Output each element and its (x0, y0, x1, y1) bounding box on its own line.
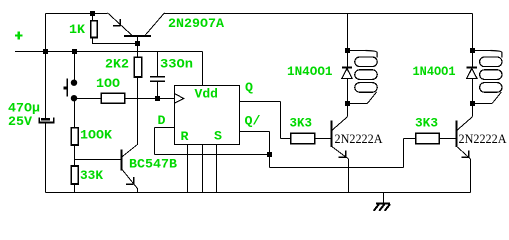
wire base wire to BC547B (75, 159, 122, 161)
wire pushbutton to 100 (77, 98, 102, 100)
transistor 2N2907A collector diagonal (145, 13, 164, 36)
wire 3K3 second to 2N2222A second base (439, 138, 456, 140)
node junction top rail x 1K (90, 11, 95, 16)
wire top supply rail left segment (46, 13, 108, 15)
svg-text:25V: 25V (8, 114, 32, 129)
pin S bottom lead (216, 145, 218, 193)
node junction D feedback x Q-bar (267, 152, 272, 157)
inductor relay coil second (473, 50, 491, 52)
resistor 2K2 body (134, 57, 142, 77)
transistor 2N2907A base bar (124, 35, 151, 37)
wire top supply rail right segment (165, 13, 473, 15)
node junction base node (135, 41, 140, 46)
wire 470u bottom lead (45, 123, 47, 193)
svg-text:1OOK: 1OOK (80, 128, 112, 143)
transistor BC547B collector diagonal (122, 144, 138, 157)
svg-text:Vdd: Vdd (195, 87, 219, 102)
transistor 2N2907A emitter arrow (119, 19, 121, 26)
wire base node to 2K2 crossing bus (137, 44, 139, 58)
svg-text:33K: 33K (80, 168, 103, 183)
svg-text:Q/: Q/ (245, 114, 261, 129)
wire Q-bar feedback run to 3K3 second (269, 155, 271, 168)
svg-text:S: S (214, 129, 222, 144)
diode 1N4001 second cathode bar (467, 67, 477, 69)
svg-text:2K2: 2K2 (105, 57, 129, 72)
resistor 1K body (91, 21, 98, 38)
svg-text:1K: 1K (69, 22, 85, 37)
transistor 2N2222A second emitter diagonal (457, 146, 471, 159)
diode 1N4001 second triangle (467, 69, 477, 79)
svg-text:D: D (158, 113, 166, 128)
svg-text:33On: 33On (160, 57, 193, 72)
node relay1 bottom junction (345, 101, 350, 106)
wire D input feedback (155, 127, 175, 129)
pin Vss bottom lead (202, 145, 204, 193)
diode 1N4001 first cathode bar (342, 67, 352, 69)
svg-text:BC547B: BC547B (129, 157, 177, 172)
wire 330n top lead (157, 52, 159, 77)
wire 1K bottom lead to base node (92, 38, 94, 44)
wire Vdd lead from bus (202, 52, 204, 86)
svg-text:2N29O7A: 2N29O7A (168, 16, 224, 31)
svg-text:3K3: 3K3 (415, 115, 438, 130)
wire relay1 bottom junction to collector (347, 104, 349, 117)
wire relay2 column top (472, 14, 474, 51)
capacitor 470u top plate (41, 118, 50, 121)
svg-text:R: R (181, 129, 189, 144)
transistor 2N2907A emitter diagonal (107, 13, 131, 36)
wire bus to pushbutton (74, 52, 76, 81)
transistor 2N2222A second base bar (456, 120, 458, 147)
switch pushbutton bottom contact (71, 95, 77, 101)
transistor 2N2222A second collector diagonal (457, 117, 473, 131)
diode 1N4001 first triangle (342, 69, 352, 79)
wire Q output to 3K3 first (240, 101, 281, 103)
transistor 2N2222A first emitter arrow (345, 150, 347, 157)
node relay2 bottom junction (470, 101, 475, 106)
node junction bus x pushbutton column (72, 49, 77, 54)
transistor BC547B emitter arrow (133, 177, 135, 184)
wire relay2 bottom junction to collector (472, 104, 474, 117)
svg-text:2N2222A: 2N2222A (459, 132, 507, 146)
wire 100K bottom lead (74, 145, 76, 166)
transistor 2N2222A first emitter diagonal (332, 146, 349, 159)
transistor BC547B emitter diagonal (122, 169, 138, 189)
svg-text:Q: Q (245, 80, 253, 95)
wire 330n bottom lead (157, 81, 159, 98)
wire pushbutton to 100K (74, 101, 76, 128)
svg-text:3K3: 3K3 (290, 115, 313, 130)
node junction bus x left vertical (43, 49, 48, 54)
transistor 2N2222A first base bar (331, 120, 333, 147)
wire 100 to clock input (125, 98, 175, 100)
switch pushbutton actuator bar (66, 79, 68, 97)
node relay2 top junction (470, 48, 475, 53)
transistor 2N2222A second emitter arrow (468, 150, 470, 157)
wire 1K top lead (92, 14, 94, 21)
svg-text:1OO: 1OO (96, 76, 120, 91)
node + supply terminal (15, 32, 23, 40)
wire relay1 column top (347, 14, 349, 51)
wire relay1 to diode first (347, 51, 349, 68)
inductor relay coil first (348, 50, 366, 52)
resistor 3K3 second body (416, 133, 440, 144)
svg-text:1N4OO1: 1N4OO1 (287, 64, 333, 79)
wire 2N2907A base lead (137, 36, 139, 44)
op-amp U1 flip-flop body (175, 86, 240, 145)
capacitor 330n plates (150, 76, 165, 78)
node relay1 top junction (345, 48, 350, 53)
transistor BC547B base bar (121, 149, 123, 170)
pin clock input triangle (175, 94, 184, 104)
wire 33K bottom lead (74, 184, 76, 193)
resistor 3K3 first body (291, 133, 315, 144)
wire diode first to bottom junction (347, 79, 349, 104)
ground symbol (383, 193, 385, 204)
wire left vertical from top rail to capacitor (45, 14, 47, 119)
svg-text:2N2222A: 2N2222A (335, 132, 383, 146)
node junction 330n x clock wire (155, 96, 160, 101)
resistor 33K body (71, 166, 78, 184)
wire relay2 to diode second (472, 51, 474, 68)
wire diode second to bottom junction (472, 79, 474, 104)
svg-text:1N4OO1: 1N4OO1 (413, 64, 456, 79)
transistor 2N2222A first collector diagonal (332, 117, 348, 131)
switch pushbutton top contact (71, 80, 77, 86)
resistor 100 body (101, 93, 125, 103)
wire Q-bar output (240, 131, 270, 133)
wire 2K2 bottom lead down to BC547B collector (137, 77, 139, 144)
pin R bottom lead (187, 145, 189, 193)
wire ground rail (46, 192, 471, 194)
wire positive bus horizontal (15, 51, 203, 53)
capacitor 470u cup plate (38, 118, 40, 123)
resistor 100K body (71, 128, 78, 145)
wire 3K3 first to 2N2222A first base (315, 138, 332, 140)
